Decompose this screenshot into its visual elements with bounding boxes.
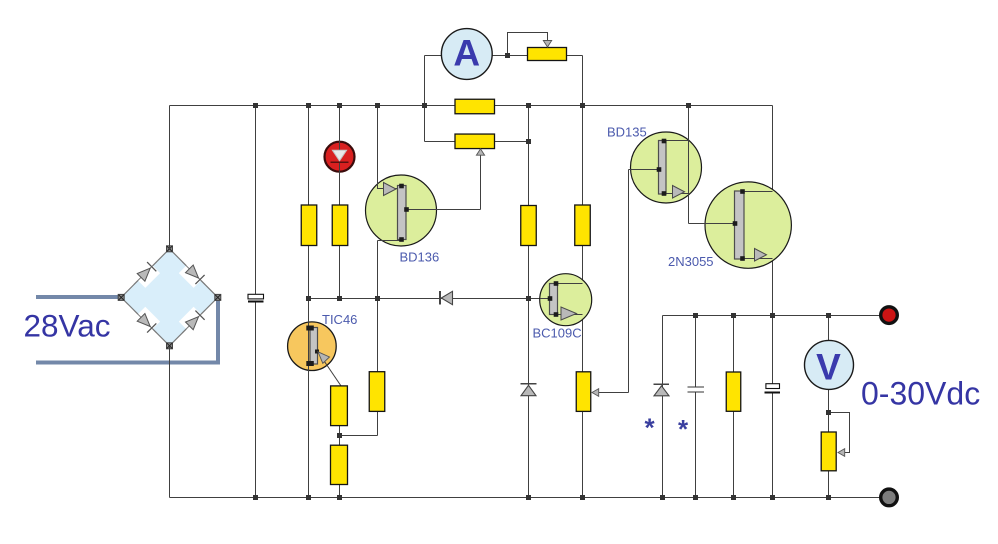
capacitor C3 plate+ (box) — [766, 384, 780, 389]
wire RV2 right to node — [495, 141, 529, 143]
LED D5 triangle — [332, 150, 346, 161]
junction top rail / Q2 emitter — [375, 103, 380, 108]
potentiometer RV4 — [821, 432, 836, 471]
junction bottom rail / RV4 — [826, 495, 831, 500]
wire mid control bus (y=298.5) — [309, 298, 551, 300]
wire C1 branch upper — [255, 106, 257, 295]
AC input wire lower (28Vac) — [36, 298, 218, 363]
capacitor C2 plate1 — [687, 386, 704, 388]
bridge rectifier BR1 body — [121, 249, 218, 346]
wire ammeter bypass loop — [508, 33, 548, 56]
wire top rail — [170, 105, 773, 107]
wire bridge top to top rail — [169, 106, 171, 249]
wire node R8 bottom to R6/R7 link vertical — [377, 412, 379, 436]
junction mid bus / Q2 collector — [375, 296, 380, 301]
bridge diode D1 (upper-left edge) — [134, 261, 161, 288]
svg-text:TIC46: TIC46 — [322, 312, 357, 327]
wire RV3 wiper horizontal — [598, 392, 629, 394]
Q5 emitter pin — [740, 256, 745, 261]
resistor R3 — [521, 206, 537, 246]
junction bottom rail / Q1 — [306, 495, 311, 500]
wire RV2-top right drop — [582, 56, 584, 106]
wire C1 branch lower — [255, 302, 257, 498]
junction bottom rail / RV3 — [580, 495, 585, 500]
Q2 emitter arrow — [384, 183, 397, 196]
junction output rail / voltmeter — [826, 313, 831, 318]
junction RV2 / R3 branch — [526, 139, 531, 144]
svg-text:V: V — [816, 347, 841, 388]
Q4 emitter pin — [662, 191, 667, 196]
resistor R6 — [331, 386, 348, 426]
Q5 collector wire — [744, 191, 773, 193]
wire R1 branch (x=308.5) — [308, 106, 310, 498]
junction mid bus / R2 branch — [337, 296, 342, 301]
resistor R8 — [369, 372, 385, 412]
Q2 collector pin — [399, 237, 404, 242]
junction output rail / Q5 emitter — [770, 313, 775, 318]
Q4 collector wire — [666, 140, 689, 142]
AC input wire upper (28Vac) — [36, 295, 121, 299]
svg-text:*: * — [678, 414, 689, 444]
diode D8 body — [654, 386, 669, 396]
resistor R7 — [331, 445, 348, 484]
Q1 gate wire — [318, 352, 341, 386]
output terminal + (red) — [881, 307, 898, 324]
junction top rail / R4 — [580, 103, 585, 108]
voltmeter M2 body — [805, 340, 854, 389]
wire R7 to bottom rail — [339, 485, 341, 498]
wire R9 branch (x=733.5) — [733, 316, 735, 498]
wire voltmeter bottom lead — [828, 390, 830, 498]
Q5 emitter wire — [744, 258, 773, 260]
resistor R9 — [726, 372, 741, 411]
wire Q5 collector riser (x=772.5) — [772, 106, 774, 384]
Q1 anode pin — [306, 326, 314, 331]
junction mid bus / R3 branch — [526, 296, 531, 301]
bridge node left (AC) — [118, 294, 124, 300]
bridge diode D4 (lower-right edge) — [179, 307, 206, 334]
transistor Q4 BD135 body — [631, 132, 702, 203]
resistor R2 — [332, 205, 348, 246]
wire RV1 lower horizontal — [425, 141, 456, 143]
capacitor C1 plate- — [248, 301, 264, 303]
junction bottom rail / D7 — [526, 495, 531, 500]
junction output rail / R9 — [731, 313, 736, 318]
capacitor C2 plate2 — [687, 391, 704, 393]
Q4 BD135 bar — [659, 141, 667, 195]
Q3 BC109C bar — [550, 284, 558, 315]
wire Q2 emitter horizontal — [378, 188, 400, 190]
wire Q4/Q5 link (x=688.5) — [688, 106, 690, 224]
Q5 base wire — [689, 223, 735, 225]
resistor R5 (horizontal) — [455, 99, 495, 114]
Q1 cathode pin — [306, 361, 314, 366]
wire Q2 collector stub — [378, 240, 402, 242]
wire ammeter left stub — [425, 55, 443, 57]
Q4 collector pin — [662, 139, 667, 144]
diode D7 body — [521, 385, 536, 395]
RV3 wiper arrow — [592, 389, 599, 397]
Q3 emitter pin — [554, 312, 559, 317]
Q4 base pin — [657, 167, 662, 172]
LED D5 cathode bar — [331, 161, 349, 163]
junction bottom rail / C3 — [770, 495, 775, 500]
transistor Q3 BC109C body — [540, 274, 592, 326]
wire ammeter right stub — [490, 55, 528, 57]
potentiometer RV3 — [576, 372, 591, 412]
RV2 wiper arrow — [476, 149, 484, 155]
Q5 collector pin — [740, 189, 745, 194]
junction bottom rail / R7 — [337, 495, 342, 500]
Q3 collector pin — [554, 281, 559, 286]
junction ammeter right / RV2-top — [505, 53, 510, 58]
wire RV2-top right side — [567, 55, 583, 57]
RV4 wiper arrow — [838, 449, 845, 457]
junction R6-R7 / R8 link — [337, 433, 342, 438]
wire output rail (y=315.5) — [663, 315, 890, 317]
junction mid bus / R1 branch — [306, 296, 311, 301]
svg-text:A: A — [453, 33, 480, 74]
junction bottom rail / C2 — [693, 495, 698, 500]
diode D8 cathode bar — [654, 383, 669, 385]
potentiometer RV2-top — [528, 48, 567, 61]
Q4 emitter wire — [666, 193, 689, 195]
junction bottom rail / R9 — [731, 495, 736, 500]
Q2 base pin — [404, 207, 409, 212]
Q3 base wire — [540, 298, 550, 300]
wire R6 to R7 link — [339, 426, 341, 446]
wire D7 branch (x=662.5) — [662, 316, 664, 498]
Q4 emitter arrow — [673, 186, 685, 199]
Q5 base pin — [733, 221, 738, 226]
wire R8 bottom link horizontal — [340, 435, 378, 437]
wire C3 branch lower — [772, 393, 774, 498]
junction top rail / Q4-Q5 link — [686, 103, 691, 108]
Q3 emitter wire — [556, 314, 583, 316]
diode D6 body — [441, 291, 452, 304]
potentiometer RV2 (horizontal) — [455, 134, 495, 149]
junction top rail / ammeter — [422, 103, 427, 108]
bridge diode D2 (upper-right edge) — [179, 261, 206, 288]
junction voltmeter / RV4 — [826, 410, 831, 415]
svg-text:28Vac: 28Vac — [24, 308, 111, 344]
wire LED/R2 branch (x=339.5) — [339, 106, 341, 299]
junction top rail / R1 — [306, 103, 311, 108]
transistor Q5 2N3055 body — [705, 182, 791, 268]
diode D6 cathode bar — [439, 291, 441, 305]
bridge node top (+) — [167, 246, 173, 252]
bridge node bottom (-) — [167, 343, 173, 349]
Q1 TIC46 bar — [310, 328, 318, 365]
Q3 base pin — [548, 296, 553, 301]
wire C2 branch upper — [695, 316, 697, 388]
svg-text:BD135: BD135 — [607, 125, 647, 140]
capacitor C3 plate- — [765, 392, 780, 394]
Q2 emitter pin — [399, 184, 404, 189]
thyristor Q1 TIC46 body — [288, 322, 337, 371]
wire RV4 wiper loop — [829, 413, 850, 453]
RV2-top wiper arrow — [543, 33, 551, 48]
wire Q4 base horizontal — [629, 169, 660, 171]
wire RV2 wiper stem — [480, 152, 482, 210]
junction top rail / R3 — [526, 103, 531, 108]
transistor Q2 BD136 body — [366, 175, 437, 246]
svg-text:BC109C: BC109C — [533, 326, 582, 341]
wire bottom rail — [170, 497, 890, 499]
Q3 emitter arrow — [561, 307, 577, 320]
junction top rail / C1 — [253, 103, 258, 108]
wire R3 branch (x=528.5) — [528, 106, 530, 498]
svg-text:BD136: BD136 — [400, 250, 440, 265]
Q5 emitter arrow — [755, 249, 767, 262]
wire R4 branch (x=582.5) — [582, 106, 584, 498]
ammeter M1 body — [441, 29, 492, 80]
bridge node right (AC) — [215, 294, 221, 300]
capacitor C1 plate+ (box) — [248, 294, 264, 299]
junction bottom rail / C1 — [253, 495, 258, 500]
junction bottom rail / D8 — [660, 495, 665, 500]
svg-text:2N3055: 2N3055 — [668, 254, 714, 269]
diode D7 cathode bar — [521, 383, 537, 385]
Q5 2N3055 bar — [735, 191, 745, 259]
bridge diode D3 (lower-left edge) — [134, 307, 161, 334]
svg-text:0-30Vdc: 0-30Vdc — [861, 376, 980, 412]
resistor R4 — [575, 205, 591, 246]
wire Q2 collector drop — [377, 241, 379, 372]
wire Q2 emitter riser — [377, 106, 379, 190]
Q3 collector wire — [556, 283, 583, 285]
junction output rail / C2 — [693, 313, 698, 318]
wire Q2 base horizontal — [406, 209, 481, 211]
Q2 BD136 bar — [398, 186, 407, 240]
Q1 gate pin — [315, 350, 319, 354]
output terminal - (gray) — [881, 489, 898, 506]
resistor R1 — [301, 205, 317, 246]
wire C2 branch lower — [695, 392, 697, 498]
Q1 gate arrowhead — [318, 352, 330, 364]
junction top rail / LED — [337, 103, 342, 108]
wire voltmeter top lead — [828, 316, 830, 343]
svg-text:*: * — [645, 413, 656, 443]
LED D5 body — [325, 142, 355, 172]
wire bridge bottom to bottom rail — [169, 346, 171, 498]
wire ammeter left drop — [424, 56, 426, 142]
wire Q3 wiper riser (x=628.5) — [628, 170, 630, 393]
